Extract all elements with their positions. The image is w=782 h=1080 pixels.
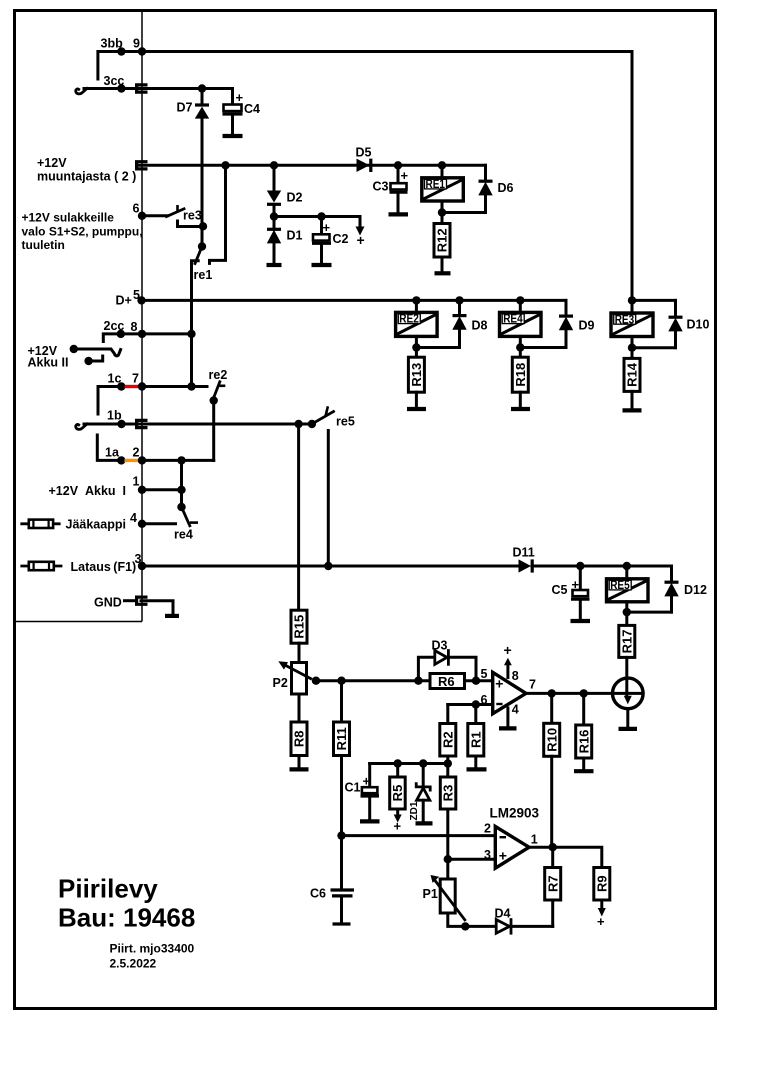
wire pin2 to re2 <box>142 459 214 462</box>
ground C4 <box>223 134 243 138</box>
svg-text:re2: re2 <box>209 368 228 382</box>
diode D4 <box>495 907 512 934</box>
svg-text:Akku II: Akku II <box>28 356 69 370</box>
rail C1 R5 ZD1 R3 <box>370 762 448 765</box>
wire RE3 to D10 top <box>632 299 676 302</box>
junction dot RE5/R17 <box>623 608 631 616</box>
svg-text:+: + <box>357 232 365 248</box>
svg-text:1: 1 <box>133 475 140 489</box>
svg-text:LM2903: LM2903 <box>490 806 540 821</box>
svg-text:R1: R1 <box>469 731 484 748</box>
diode D9 <box>559 300 595 347</box>
diode D8 <box>452 300 487 347</box>
svg-text:D5: D5 <box>356 146 372 160</box>
svg-text:2: 2 <box>133 446 140 460</box>
svg-text:D6: D6 <box>498 181 514 195</box>
wire +12V rail <box>139 164 486 167</box>
junction dot D8 <box>455 296 463 304</box>
junction dot D7/3cc <box>198 84 206 92</box>
svg-text:D+: D+ <box>116 294 132 308</box>
svg-text:2: 2 <box>484 822 491 836</box>
svg-text:+: + <box>323 220 331 235</box>
op-amp U1 <box>493 672 526 713</box>
svg-text:RE1: RE1 <box>426 179 446 191</box>
wire Lataus rail left <box>142 565 519 568</box>
junction dot 2cc/re1 wire <box>187 330 195 338</box>
svg-text:R15: R15 <box>292 615 307 639</box>
junction dot ZD1 <box>419 759 427 767</box>
red segment 1c-7 <box>125 385 141 388</box>
ground C5 <box>571 619 591 623</box>
svg-text:1a: 1a <box>105 446 120 460</box>
connector bracket 1b <box>137 420 148 427</box>
ground R14 <box>623 408 642 412</box>
orange segment 1a-2 <box>125 459 141 462</box>
switch re4 <box>174 503 198 542</box>
switch re1 <box>192 165 226 385</box>
opamp pin4 ground <box>499 703 519 729</box>
capacitor C3 <box>373 165 409 212</box>
svg-text:+: + <box>495 676 503 692</box>
wire RE3 bottom <box>632 337 676 348</box>
diode D2 <box>267 165 303 216</box>
junction dot D2 branch <box>270 161 278 169</box>
wire pin7 to re2 <box>142 385 207 388</box>
svg-text:3: 3 <box>484 848 491 862</box>
wire 2cc <box>103 334 191 342</box>
junction dot output/R7 <box>549 843 557 851</box>
svg-text:re3: re3 <box>183 209 202 223</box>
ground R16 <box>574 769 594 773</box>
svg-text:+: + <box>499 848 507 864</box>
svg-text:R5: R5 <box>390 785 405 802</box>
svg-text:C1: C1 <box>345 781 361 795</box>
svg-text:+: + <box>394 819 402 834</box>
resistor R10 <box>544 693 560 846</box>
resistor R1 <box>468 705 484 768</box>
svg-text:5: 5 <box>481 667 488 681</box>
wire pin6 to re3 <box>142 214 167 217</box>
junction dot R11 top <box>337 677 345 685</box>
wire 1a left hook <box>97 435 121 460</box>
resistor R2 <box>440 724 456 757</box>
pin 1 dot <box>138 486 146 494</box>
wire RE2 bottom <box>416 336 459 347</box>
node 3bb dot <box>117 47 125 55</box>
svg-text:2.5.2022: 2.5.2022 <box>110 957 157 971</box>
GND stub <box>125 599 137 602</box>
svg-text:R17: R17 <box>619 629 634 653</box>
junction dot RE2 <box>412 296 420 304</box>
svg-text:7: 7 <box>529 678 536 692</box>
pin 3 dot <box>138 562 146 570</box>
junction dot RE4/R18 <box>516 343 524 351</box>
diode D6 <box>478 165 513 212</box>
svg-text:D7: D7 <box>177 101 193 115</box>
switch re5 <box>308 406 355 565</box>
capacitor C5 <box>552 566 590 619</box>
resistor R8 <box>291 694 307 768</box>
svg-text:8: 8 <box>512 669 519 683</box>
resistor R16 <box>576 693 592 769</box>
svg-text:ZD1: ZD1 <box>409 801 420 820</box>
junction dot R16 top <box>580 689 588 697</box>
svg-text:Piirilevy: Piirilevy <box>58 874 158 904</box>
capacitor C4 <box>223 89 261 135</box>
diode D3 <box>432 639 449 665</box>
svg-text:re4: re4 <box>174 528 193 542</box>
pin 7 dot <box>138 382 146 390</box>
wire RE1 bottom <box>442 201 486 213</box>
svg-text:R6: R6 <box>438 674 455 689</box>
capacitor C2 <box>312 217 349 264</box>
connector bracket muuntajasta <box>137 162 148 169</box>
svg-text:R2: R2 <box>441 731 456 748</box>
svg-text:R14: R14 <box>625 362 640 387</box>
diode D5 <box>356 146 372 173</box>
comparator LM2903 <box>495 826 529 868</box>
junction dot re3/D7 wire <box>199 222 207 230</box>
opamp pin8 supply arrow <box>504 642 519 683</box>
wire 1b <box>84 423 312 426</box>
ground D1 <box>267 263 282 267</box>
ground meter <box>619 727 638 731</box>
wire Lataus rail right <box>532 565 672 568</box>
svg-text:re1: re1 <box>194 268 213 282</box>
relay RE1 <box>422 165 464 201</box>
svg-text:R13: R13 <box>409 363 424 387</box>
switch re2 <box>209 368 228 460</box>
svg-text:C2: C2 <box>333 232 349 246</box>
wire LM2903 pin3 <box>448 858 496 861</box>
svg-text:RE4: RE4 <box>503 314 523 326</box>
node D2/D1 junction <box>270 212 278 220</box>
svg-text:+12V sulakkeille: +12V sulakkeille <box>22 211 115 225</box>
fuse Lataus F1 <box>22 562 61 570</box>
junction dot C5 <box>576 562 584 570</box>
junction dot R3/P1/pin3 <box>444 855 452 863</box>
resistor R11 <box>334 681 350 836</box>
wire re4 common <box>180 460 183 507</box>
relay RE3 <box>611 313 653 337</box>
Akku II plug upper wire <box>70 345 121 356</box>
svg-text:3bb: 3bb <box>101 37 124 51</box>
svg-text:Piirt. mjo33400: Piirt. mjo33400 <box>110 942 195 956</box>
wire RE4 bottom <box>520 336 566 347</box>
svg-text:+: + <box>401 168 409 183</box>
svg-text:9: 9 <box>133 37 140 51</box>
ground R1 <box>467 767 487 771</box>
node 3cc dot <box>117 84 125 92</box>
pin 5 dot <box>137 296 145 304</box>
svg-text:+: + <box>504 642 512 658</box>
potentiometer P1 <box>423 875 465 920</box>
meter circle <box>613 678 644 727</box>
svg-text:D1: D1 <box>287 229 303 243</box>
ground R18 <box>511 407 530 411</box>
svg-text:6: 6 <box>481 693 488 707</box>
svg-text:re5: re5 <box>336 415 355 429</box>
junction dot RE1 branch <box>438 161 446 169</box>
node 1a dot <box>117 456 125 464</box>
svg-text:+12V Akku I: +12V Akku I <box>49 484 126 498</box>
junction dot re1 branch <box>221 161 229 169</box>
node 1b dot <box>117 420 125 428</box>
node 9 dot <box>138 47 146 55</box>
junction dot pin2/re4 branch <box>177 456 185 464</box>
svg-text:P2: P2 <box>273 676 288 690</box>
wire pin1 <box>142 488 182 491</box>
svg-text:Bau: 19468: Bau: 19468 <box>58 903 195 933</box>
svg-text:GND: GND <box>94 596 122 610</box>
svg-text:R12: R12 <box>435 228 450 252</box>
wire D1 node rail <box>274 215 360 218</box>
wiper junction dot P2 <box>312 677 320 685</box>
junction dot R15 branch <box>294 420 302 428</box>
svg-text:C3: C3 <box>373 180 389 194</box>
Akku II plug lower wire <box>84 356 102 365</box>
junction dot R10 top <box>548 689 556 697</box>
wire P1 bottom to D4 <box>448 913 496 926</box>
resistor R13 <box>408 348 424 408</box>
wire R2 chain vertical <box>446 705 449 880</box>
junction dot R3 <box>444 759 452 767</box>
svg-text:3cc: 3cc <box>104 74 125 88</box>
svg-text:C6: C6 <box>310 887 326 901</box>
junction dot RE5 <box>623 562 631 570</box>
resistor R12 <box>434 213 450 272</box>
pin 6 dot <box>138 212 146 220</box>
svg-text:D12: D12 <box>684 583 707 597</box>
svg-text:D9: D9 <box>579 319 595 333</box>
svg-text:1: 1 <box>531 833 538 847</box>
potentiometer P2 <box>273 661 311 694</box>
svg-text:D10: D10 <box>687 318 710 332</box>
switch re3 <box>167 205 204 227</box>
zener ZD1 <box>409 764 430 822</box>
connector bracket 3cc <box>137 85 148 92</box>
pin 4 dot <box>138 520 146 528</box>
svg-text:7: 7 <box>132 372 139 386</box>
svg-text:+12V: +12V <box>37 156 67 170</box>
svg-text:valo S1+S2, pumppu,: valo S1+S2, pumppu, <box>22 225 143 239</box>
junction dot C3 branch <box>394 161 402 169</box>
relay RE2 <box>396 300 438 336</box>
resistor R17 <box>619 625 635 696</box>
svg-text:R10: R10 <box>544 728 559 752</box>
pin 8 dot <box>138 330 146 338</box>
junction dot D3 loop left <box>414 677 422 685</box>
svg-text:R3: R3 <box>441 785 456 802</box>
svg-text:C4: C4 <box>244 102 260 116</box>
resistor R9 <box>594 868 610 930</box>
wire R15 riser from 1b <box>297 424 300 610</box>
junction dot RE2/R13 <box>412 343 420 351</box>
svg-text:RE3: RE3 <box>615 314 635 326</box>
ground C1 <box>360 819 380 823</box>
svg-text:muuntajasta ( 2 ): muuntajasta ( 2 ) <box>37 170 136 184</box>
relay RE4 <box>500 300 542 336</box>
junction dot RE1/R12 <box>438 208 446 216</box>
ground C3 <box>389 212 409 216</box>
wire pin4 <box>142 522 176 525</box>
3cc left hook <box>76 89 87 94</box>
svg-text:+: + <box>236 90 244 105</box>
svg-text:R8: R8 <box>292 730 307 747</box>
diode D12 <box>664 566 707 612</box>
svg-text:C5: C5 <box>552 583 568 597</box>
ground R8 <box>290 767 309 771</box>
svg-text:4: 4 <box>130 511 137 525</box>
wire D4 to R7 <box>511 925 553 928</box>
junction dot R11/C6/pin2 <box>337 831 345 839</box>
resistor R6 <box>430 674 465 689</box>
resistor R7 <box>545 847 561 926</box>
wire LM2903 pin2 <box>342 834 496 837</box>
wire GND to ground <box>141 601 173 614</box>
svg-text:D4: D4 <box>495 907 511 921</box>
resistor R5 <box>390 764 406 834</box>
svg-text:D2: D2 <box>287 191 303 205</box>
svg-text:4: 4 <box>512 703 519 717</box>
ground ZD1 <box>416 821 433 825</box>
fuse Jaakaappi <box>22 520 59 528</box>
connector bracket GND <box>137 597 148 604</box>
svg-text:RE2: RE2 <box>399 314 419 326</box>
diode D10 <box>668 300 709 347</box>
ground R13 <box>407 407 426 411</box>
node 1c dot <box>117 382 125 390</box>
wire LM2903 output <box>529 847 602 867</box>
junction dot re5/Lataus <box>324 562 332 570</box>
relay RE5 <box>607 566 649 602</box>
wire 9 to RE3 vertical <box>631 52 634 314</box>
node 2cc dot <box>117 330 125 338</box>
svg-text:6: 6 <box>133 202 140 216</box>
svg-text:R16: R16 <box>576 730 591 754</box>
diode D7 <box>177 89 210 247</box>
capacitor C6 <box>310 836 354 924</box>
svg-text:R11: R11 <box>334 727 349 750</box>
wire 3cc <box>84 87 233 90</box>
capacitor C1 <box>345 764 380 820</box>
diode D1 <box>267 217 303 264</box>
resistor R18 <box>512 348 528 408</box>
ground GND <box>165 614 179 618</box>
svg-text:R7: R7 <box>545 875 560 892</box>
junction dot R1 top <box>472 700 480 708</box>
svg-text:Lataus (F1): Lataus (F1) <box>71 560 137 574</box>
resistor R3 <box>440 777 456 809</box>
svg-text:P1: P1 <box>423 887 438 901</box>
wire 3bb/9 top rail <box>98 52 632 80</box>
svg-text:tuuletin: tuuletin <box>22 238 65 252</box>
junction dot D3 loop right <box>472 677 480 685</box>
wire P2 wiper to opamp <box>316 679 493 682</box>
supply arrow right of C2 <box>356 217 365 249</box>
wire 1c left hook <box>98 387 121 415</box>
1b left hook <box>76 424 87 429</box>
ground R12 <box>435 271 451 275</box>
resistor R14 <box>624 348 640 409</box>
svg-text:D8: D8 <box>472 319 488 333</box>
svg-text:RE5: RE5 <box>610 580 630 592</box>
connector bus line <box>16 12 142 622</box>
junction dot P1 wiper <box>461 922 469 930</box>
pin 2 dot <box>138 456 146 464</box>
resistor R15 <box>291 610 307 662</box>
junction dot C2 <box>317 212 325 220</box>
svg-text:D11: D11 <box>513 546 535 560</box>
wire opamp output <box>526 692 643 695</box>
svg-text:D3: D3 <box>432 639 448 653</box>
junction dot RE4 <box>516 296 524 304</box>
junction dot R5 <box>394 759 402 767</box>
svg-text:8: 8 <box>131 320 138 334</box>
svg-text:Jääkaappi: Jääkaappi <box>66 518 126 532</box>
ground C2 <box>312 263 332 267</box>
svg-text:+: + <box>597 914 605 929</box>
junction dot pin1/re4 <box>177 486 185 494</box>
junction dot re1 wire/pin7 <box>187 382 195 390</box>
diode D11 <box>513 546 535 573</box>
svg-text:R9: R9 <box>595 875 610 892</box>
wire opamp inverting input <box>448 703 493 706</box>
junction dot RE3/R14 <box>628 344 636 352</box>
wire D3 loop <box>418 657 476 680</box>
svg-text:R18: R18 <box>513 363 528 387</box>
junction dot RE3 top <box>628 296 636 304</box>
wire D+ rail <box>142 299 567 302</box>
wire RE5 bottom <box>627 602 672 626</box>
